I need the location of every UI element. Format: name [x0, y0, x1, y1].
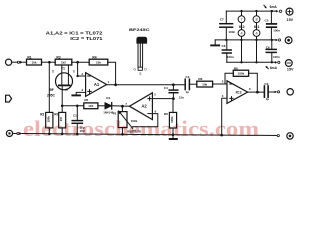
svg-text:R6: R6: [234, 66, 238, 70]
rail -15V bottom: [227, 61, 275, 63]
svg-text:C6: C6: [266, 45, 270, 49]
ground symbol 0V rail: [211, 40, 219, 46]
pin 8 circled: [253, 16, 260, 23]
svg-text:S: S: [139, 72, 141, 76]
junction dot C4-R6 node: [172, 97, 175, 100]
node A junction dot: [48, 61, 51, 64]
wire R7 to ground line: [61, 128, 63, 134]
svg-text:A1,A2 = IC1 = TL072: A1,A2 = IC1 = TL072: [46, 30, 104, 35]
-15V terminal: [285, 60, 292, 67]
junction dot IC2 output node: [256, 91, 259, 94]
wire R2 to ground line: [48, 128, 50, 134]
op-amp A1: [81, 72, 109, 97]
junction dot R4 feedback: [114, 83, 117, 86]
capacitor C6 100n: [265, 11, 281, 40]
svg-text:IC1: IC1: [254, 25, 260, 29]
plug symbol -15V: [275, 61, 280, 64]
junction dot C4 tap: [172, 83, 175, 86]
svg-text:8: 8: [255, 18, 257, 22]
svg-text:BF245C: BF245C: [129, 28, 150, 32]
junction dot A2 output node: [121, 105, 124, 108]
wire R5 to D1: [98, 105, 105, 107]
capacitor C8 100n: [222, 40, 234, 62]
svg-text:P1: P1: [113, 111, 117, 115]
wire T1 gate down to gate node: [61, 85, 63, 112]
wire A1 pin3 to ground: [76, 92, 85, 94]
junction top rail pin7: [240, 10, 242, 12]
plug symbol 0V: [276, 39, 281, 42]
current annotation 6mA bottom: [265, 66, 277, 70]
wire node B down to A1 pin2: [78, 62, 86, 76]
svg-text:multiturn: multiturn: [127, 129, 141, 133]
ground bar below R6 node: [170, 135, 177, 139]
svg-text:1k5: 1k5: [88, 104, 93, 108]
resistor R7 1M vertical: [54, 112, 65, 128]
node B junction dot: [76, 61, 79, 64]
svg-text:100n: 100n: [273, 29, 280, 33]
capacitor C3 1u: [185, 75, 189, 94]
svg-text:10k: 10k: [202, 82, 207, 86]
+15V terminal: [286, 8, 293, 15]
wire IC2 output: [248, 91, 264, 93]
resistor R8 10k: [197, 77, 213, 87]
svg-text:R5: R5: [84, 98, 88, 102]
potentiometer P1 100k: [113, 106, 141, 134]
svg-text:R2: R2: [40, 113, 44, 117]
junction dot R2 gnd: [48, 133, 51, 136]
svg-text:100k: 100k: [46, 116, 50, 123]
junction dot A1 pin2 corner: [76, 75, 78, 77]
wire A1 output line: [107, 84, 185, 86]
0V terminal: [285, 37, 292, 44]
op-amp IC2: [222, 80, 251, 104]
ground terminal bottom left: [6, 130, 12, 136]
wire IC2 pin3 to ground: [222, 98, 227, 134]
resistor R5 1k5: [84, 98, 98, 109]
plug symbol +15V: [276, 10, 282, 13]
supply vertical IC2 pins: [241, 11, 243, 62]
junction dot R7 gnd: [61, 133, 64, 136]
wire R1 to R3: [42, 61, 56, 63]
junction bottom rail C6: [271, 61, 273, 63]
wire D1 to A2 output node: [112, 105, 130, 107]
svg-text:R8: R8: [198, 77, 202, 81]
input plug symbol: [17, 61, 23, 64]
junction mid rail IC2 pin4: [240, 39, 242, 41]
wire node A down to R2: [48, 62, 50, 112]
svg-text:7: 7: [240, 18, 242, 22]
ground terminal bottom right: [287, 133, 293, 139]
ground bar at A1 pin3: [72, 94, 80, 96]
svg-text:C1: C1: [73, 113, 77, 117]
svg-text:16V: 16V: [80, 129, 85, 133]
wire A2 pin6 feedback loop: [133, 114, 158, 127]
resistor R4 10k: [89, 55, 108, 65]
TO-92 package T1 case: [133, 37, 147, 76]
capacitor C7 100n: [220, 11, 236, 40]
svg-text:C9: C9: [264, 82, 268, 86]
svg-text:R3: R3: [56, 55, 60, 59]
junction top rail C5: [271, 10, 273, 12]
diode D1 1N4148: [103, 96, 114, 114]
ground plug symbol: [17, 132, 22, 135]
svg-text:15V: 15V: [287, 18, 294, 22]
svg-text:T1: T1: [61, 66, 65, 70]
svg-text:4: 4: [240, 32, 242, 36]
svg-text:100k: 100k: [238, 72, 245, 76]
svg-text:1k5: 1k5: [61, 60, 66, 64]
svg-text:R1: R1: [27, 55, 31, 59]
wire plug to R1: [23, 61, 27, 63]
svg-text:245C: 245C: [47, 93, 56, 97]
supply vertical IC1 pins: [256, 11, 258, 62]
junction dot C1 gnd: [76, 133, 79, 136]
wire R4 to A1 output node: [108, 62, 116, 85]
svg-text:C3: C3: [185, 75, 189, 79]
wire A2 pin5 line: [152, 98, 173, 100]
svg-text:10k: 10k: [96, 60, 101, 64]
junction dot R6 gnd: [172, 133, 175, 136]
svg-text:15V: 15V: [287, 68, 294, 72]
wire R8 to IC2 pin2: [213, 83, 227, 85]
output plug symbol: [275, 91, 280, 94]
resistor R3 1k5: [55, 55, 72, 65]
svg-text:1µ: 1µ: [266, 97, 270, 101]
junction top rail pin8: [255, 10, 257, 12]
output terminal: [287, 89, 293, 95]
svg-text:C4: C4: [164, 86, 168, 90]
pin 7 circled: [238, 16, 245, 23]
svg-text:1M: 1M: [59, 117, 63, 122]
junction mid rail IC1 pin4: [255, 39, 257, 41]
junction mid rail C7: [225, 39, 227, 41]
capacitor C1 10u 16V: [72, 106, 85, 134]
svg-text:G: G: [65, 88, 68, 92]
svg-text:C8: C8: [222, 44, 226, 48]
svg-text:A2: A2: [141, 104, 147, 109]
wire C3 to R8: [189, 83, 196, 85]
svg-text:100n: 100n: [228, 30, 235, 34]
svg-text:D1: D1: [106, 96, 110, 100]
svg-text:12n: 12n: [179, 95, 184, 99]
svg-text:100n: 100n: [273, 55, 280, 59]
junction dot P1 gnd: [121, 133, 124, 136]
svg-text:IC2 = TL071: IC2 = TL071: [70, 36, 103, 41]
junction bottom rail right: [255, 61, 257, 63]
svg-text:6mA: 6mA: [270, 66, 278, 70]
svg-text:IC2: IC2: [236, 90, 243, 95]
capacitor C4 12n: [164, 85, 184, 100]
svg-text:10k: 10k: [31, 60, 36, 64]
svg-text:100k: 100k: [131, 119, 138, 123]
svg-text:R7: R7: [54, 112, 58, 116]
svg-text:C7: C7: [220, 17, 224, 21]
input terminal J1: [6, 59, 12, 65]
svg-text:R6: R6: [164, 112, 168, 116]
capacitor C9 100n: [266, 40, 280, 62]
svg-text:6mA: 6mA: [270, 5, 278, 9]
wire C5 to output plug: [268, 91, 275, 93]
svg-text:BF: BF: [49, 88, 54, 92]
junction dot IC2 pin3 gnd: [220, 134, 223, 137]
power rail +15V top: [226, 10, 276, 12]
ground rail wire: [22, 134, 277, 136]
junction dot gate node: [61, 105, 64, 108]
svg-text:4: 4: [255, 32, 257, 36]
resistor R1 10k: [27, 55, 42, 65]
resistor R6 100k vertical: [164, 99, 177, 135]
header note A1,A2 = IC1 = TL072: [46, 30, 104, 41]
junction bottom rail left: [240, 61, 242, 63]
current annotation 6mA top: [264, 5, 277, 9]
svg-text:C5: C5: [265, 18, 269, 22]
pin 4 circled left: [238, 30, 245, 37]
svg-text:1µ: 1µ: [186, 90, 190, 94]
pin 4 circled right: [253, 30, 260, 37]
svg-text:A1: A1: [94, 82, 100, 87]
rail 0V mid: [215, 39, 275, 41]
ground line plug symbol right: [277, 135, 279, 137]
svg-text:IC2: IC2: [239, 25, 245, 29]
svg-text:100k: 100k: [170, 116, 174, 123]
resistor R9 100k feedback: [225, 66, 257, 92]
wire gate node line to R5: [62, 105, 84, 107]
transistor T1 BF245C: [47, 65, 76, 97]
svg-text:R4: R4: [92, 55, 96, 59]
svg-text:100n: 100n: [227, 55, 234, 59]
junction dot C1 tap: [76, 105, 79, 108]
wire gnd terminal to plug: [13, 132, 17, 134]
capacitor C5 1u output: [264, 82, 269, 101]
op-amp A2: [125, 93, 156, 120]
resistor R2 100k vertical: [40, 112, 53, 128]
wire input to plug: [12, 61, 18, 63]
wire R3 to R4: [72, 61, 89, 63]
junction mid rail C6: [271, 39, 273, 41]
to-amplifier pentagon connector: [6, 95, 12, 102]
